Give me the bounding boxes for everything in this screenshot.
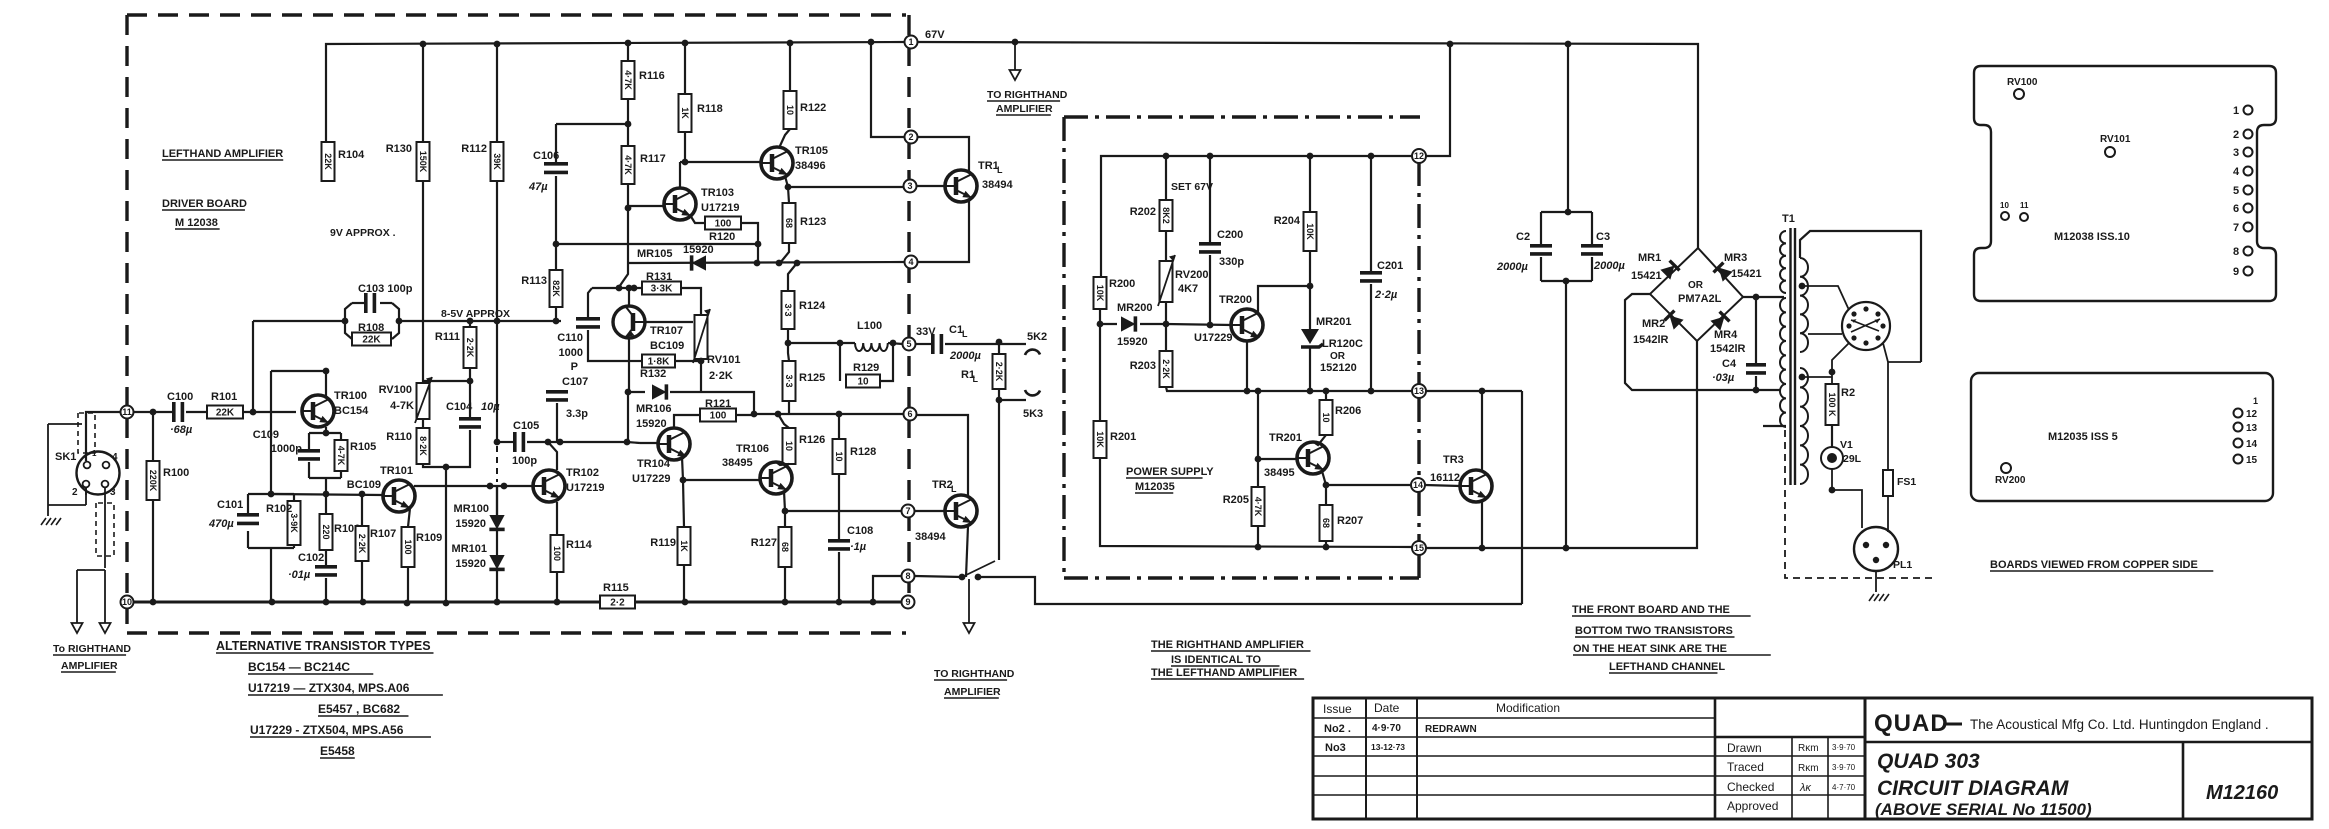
wire: TR106 emitter to node 7 wire [784,491,785,511]
wire: TR100 emitter node to TR101 base [271,494,382,495]
wire: TR200 emitter to R204 junction [1258,286,1310,313]
wire: TR100 collector tap to feedback block [271,370,326,372]
svg-text:15920: 15920 [636,418,667,430]
resistor R131 3-3K [619,263,628,287]
svg-text:2·2µ: 2·2µ [1374,289,1398,301]
wire: TR200 collector to node 13 rail [1246,340,1248,391]
wire: R118 to TR105 base [684,132,686,162]
title block columns and rows [1313,717,1715,719]
resistor R118 1K [684,43,686,94]
svg-text:TO RIGHTHAND: TO RIGHTHAND [934,668,1015,680]
svg-text:4: 4 [908,257,913,267]
wire: R131 tap to TR107 collector [628,288,630,307]
svg-text:1·8K: 1·8K [648,357,670,368]
svg-text:2·2K: 2·2K [465,338,475,358]
node 14 [1411,478,1425,492]
svg-text:10µ: 10µ [481,401,500,413]
svg-text:15: 15 [1414,543,1424,553]
svg-text:2000µ: 2000µ [1496,261,1528,273]
drawing number M12160 box [2182,742,2185,819]
svg-text:39K: 39K [492,153,502,170]
dashed link R112 column to clamp diodes [496,446,498,482]
svg-text:MR105: MR105 [637,248,672,260]
svg-text:38494: 38494 [915,531,946,543]
svg-text:2·2K: 2·2K [994,362,1004,382]
node 11 (input) [121,406,134,419]
wire: V1 to PL1 [1832,469,1862,528]
svg-text:9: 9 [2233,266,2239,278]
svg-text:RV200: RV200 [1995,475,2026,486]
transistor TR101 BC109 [383,480,415,512]
node 3 [904,180,917,193]
svg-text:9V APPROX .: 9V APPROX . [330,227,396,239]
svg-text:BC109: BC109 [347,479,381,491]
svg-text:R122: R122 [800,102,826,114]
switch contact at output [962,561,995,577]
svg-text:THE FRONT BOARD AND THE: THE FRONT BOARD AND THE [1572,604,1730,616]
board hole RV100 [2014,89,2024,99]
svg-text:QUAD 303: QUAD 303 [1877,750,1980,773]
svg-text:AMPLIFIER: AMPLIFIER [61,660,118,672]
resistor R113 82K [555,244,557,270]
resistor R101 22K [186,411,207,413]
node 10 (input ground) [121,596,134,609]
node 1 (67V) [905,36,918,49]
svg-text:BC109: BC109 [650,340,684,352]
svg-text:ON THE HEAT SINK ARE TH: ON THE HEAT SINK ARE THE [1573,643,1727,655]
svg-text:λκ: λκ [1799,782,1811,794]
svg-text:To RIGHTHAND: To RIGHTHAND [53,643,131,655]
resistor R115 2-2 in ground rail [600,596,635,609]
svg-text:3-9K: 3-9K [289,513,299,533]
svg-text:10: 10 [857,377,869,388]
svg-text:C3: C3 [1596,231,1610,243]
svg-text:M 12038: M 12038 [175,217,218,229]
svg-text:U17219 — ZTX304, MPS.A06: U17219 — ZTX304, MPS.A06 [248,681,410,695]
capacitor C108 -1u [838,474,840,539]
diode MR105 15920 [692,255,706,270]
capacitor C106 47u [555,124,557,162]
transistor TR107 BC109 (mirrored) [613,306,645,338]
svg-text:10: 10 [2000,201,2009,210]
svg-text:C106: C106 [533,150,559,162]
svg-text:Modification: Modification [1496,701,1560,715]
svg-text:E5457 , BC682: E5457 , BC682 [318,702,400,716]
svg-text:R107: R107 [370,528,396,540]
svg-text:C102: C102 [298,552,324,564]
svg-text:E5458: E5458 [320,744,355,758]
svg-text:Approved: Approved [1727,799,1778,813]
svg-text:R116: R116 [639,70,665,82]
wire: TR105 emitter to node 3 / R123 [785,176,788,187]
wire: TR3 emitter to node 15 rail [1481,501,1483,548]
svg-text:11: 11 [122,407,132,417]
svg-text:100 K: 100 K [1827,392,1837,417]
svg-text:L: L [962,329,968,339]
svg-text:L100: L100 [857,320,882,332]
node 15 [1412,541,1426,555]
svg-text:LR120C: LR120C [1322,338,1363,350]
diode MR106 15920 [628,391,645,393]
svg-text:·68µ: ·68µ [170,424,193,436]
svg-text:R114: R114 [566,539,593,551]
wire: bridge left node to transformer secondary bottom [1625,294,1781,390]
svg-text:16112: 16112 [1430,472,1460,484]
capacitor C4 -03u [1755,297,1757,363]
svg-text:(ABOVE SERIAL No 11500): (ABOVE SERIAL No 11500) [1875,800,2092,819]
resistor R205 4-7K [1257,459,1259,487]
svg-text:LEFTHAND AMPLIFIER: LEFTHAND AMPLIFIER [162,148,283,160]
resistor R119 1K [683,480,684,527]
svg-text:5K2: 5K2 [1027,331,1047,343]
wire: R203 to node 13 rail [1166,387,1412,391]
wire: R1L column down to output switch [998,400,1000,560]
svg-text:13: 13 [2246,423,2258,434]
diode MR2 1542lR [1665,311,1684,330]
svg-text:3: 3 [907,181,912,191]
wire: node 13 to TR3 collector and return corner [1426,390,1522,392]
svg-text:OR: OR [1330,351,1346,362]
wire: TR1L emitter to node 4 [917,201,969,262]
wire: 8-5V node wire to R113/C110 [399,320,561,322]
svg-text:2: 2 [2233,129,2239,141]
preset RV200 4K7 [1165,231,1167,261]
preset RV101 2-2K [695,315,708,359]
svg-text:R104: R104 [338,149,365,161]
wire: output to power supply return [978,577,1522,604]
preset RV100 4-7K [423,380,470,382]
diode MR4 1542lR [1710,312,1729,331]
node 7 [902,505,915,518]
svg-text:R117: R117 [640,153,666,165]
inductor L100 [855,343,888,351]
svg-text:3·3: 3·3 [783,303,793,316]
svg-text:R202: R202 [1130,206,1156,218]
svg-text:L: L [997,165,1003,175]
wire: bridge right node to transformer secondary top [1743,296,1784,298]
svg-text:R110: R110 [386,431,412,443]
resistor R120 100 [690,215,705,223]
svg-text:15421: 15421 [1731,268,1762,280]
capacitor C3 2000u [1591,212,1593,244]
wire: R112 column (67V to bias node to TR102 base node) [496,44,498,142]
resistor R123 68 [788,187,789,203]
svg-text:38496: 38496 [795,160,826,172]
PCB board outline M12035 ISS 5 [1971,373,2273,501]
svg-text:RV101: RV101 [2100,134,2131,145]
wire: node 6 rail [754,413,903,415]
resistor R100 220K [152,412,154,461]
svg-text:MR3: MR3 [1724,252,1747,264]
svg-text:5: 5 [2233,185,2239,197]
svg-text:R102: R102 [266,503,292,515]
svg-text:U17229 - ZTX504, MPS.A56: U17229 - ZTX504, MPS.A56 [250,723,404,737]
wire: selector to R2 and V1 [1832,343,1849,384]
svg-text:15920: 15920 [455,518,486,530]
svg-text:4·7K: 4·7K [1253,497,1263,517]
svg-text:15: 15 [2246,455,2258,466]
lefthand amplifier board dashed border [127,13,906,16]
svg-text:MR106: MR106 [636,403,671,415]
mains section dashed box [1785,430,1932,578]
wire: node 7 to TR2L base [914,510,945,512]
svg-text:3·9·70: 3·9·70 [1832,743,1856,752]
svg-text:13: 13 [1414,386,1424,396]
svg-text:10: 10 [784,441,794,451]
resistor R2 100K [1826,384,1839,425]
resistor R132 1-8K [628,337,630,361]
resistor R129 10 damping [839,343,841,381]
wire: primary tap to selector [1802,286,1849,310]
svg-text:Traced: Traced [1727,760,1764,774]
svg-text:6: 6 [2233,203,2239,215]
capacitor C100 with label [133,411,172,413]
svg-text:68: 68 [784,218,794,228]
svg-text:Checked: Checked [1727,780,1774,794]
svg-text:R125: R125 [799,372,825,384]
svg-text:9: 9 [905,597,910,607]
svg-text:C4: C4 [1722,358,1737,370]
board hole RV200 [2001,463,2011,473]
wire: SK1 pin 2 to input ground [85,488,87,495]
svg-text:2000µ: 2000µ [1593,260,1625,272]
transistor TR201 38495 [1297,442,1329,474]
svg-text:4·7·70: 4·7·70 [1832,783,1856,792]
capacitor C2 2000u [1567,44,1569,212]
svg-text:2·2K: 2·2K [357,534,367,554]
resistor R1L 2-2K [998,342,1000,354]
svg-text:2·2K: 2·2K [709,370,733,382]
svg-text:1542lR: 1542lR [1710,343,1746,355]
svg-text:R101: R101 [211,391,237,403]
resistor R109 100 [408,508,410,527]
wire: TR104 emitter to R119 and TR106 base [682,457,683,480]
wire: R201 to node 15 rail [1100,458,1412,547]
svg-text:L: L [973,374,979,384]
svg-text:No3: No3 [1325,742,1346,754]
svg-text:470µ: 470µ [208,518,234,530]
resistor R112 39K [491,142,504,181]
svg-text:15920: 15920 [1117,336,1148,348]
svg-text:THE RIGHTHAND AMPLIFIER: THE RIGHTHAND AMPLIFIER [1151,639,1304,651]
svg-text:LEFTHAND CHANNEL: LEFTHAND CHANNEL [1609,661,1725,673]
svg-text:DRIVER BOARD: DRIVER BOARD [162,198,247,210]
wire: TR201 emitter to node 14 [1322,471,1326,485]
svg-text:8K2: 8K2 [1161,207,1171,224]
resistor R202 8K2 [1165,156,1167,200]
wire: 0V ground rail (node 10 to node 9) [133,601,600,604]
svg-text:T1: T1 [1782,213,1795,225]
resistor R111 2-2K [469,321,471,327]
svg-text:C109: C109 [253,429,279,441]
resistor R203 2-2K [1165,324,1167,351]
svg-text:3.3p: 3.3p [566,408,588,420]
svg-text:V1: V1 [1840,439,1853,451]
svg-text:U17219: U17219 [566,482,605,494]
svg-text:8-5V APPROX: 8-5V APPROX [441,308,510,320]
wire: C106 bottom to driver bootstrap [556,243,758,245]
transistor TR103 U17219 [664,188,696,220]
svg-text:C201: C201 [1377,260,1403,272]
diode MR100 15920 [496,486,498,517]
svg-text:POWER SUPPLY: POWER SUPPLY [1126,466,1214,478]
output socket SK3 [999,399,1026,401]
capacitor C200 330p [1209,156,1211,242]
wire: node 4 rail [628,262,904,263]
svg-text:38495: 38495 [722,457,753,469]
svg-text:C200: C200 [1217,229,1243,241]
svg-text:PM7A2L: PM7A2L [1678,293,1722,305]
transistor TR1L 38494 output [945,170,977,202]
wire: feeds to righthand amplifier with arrows [77,569,105,571]
svg-text:TR100: TR100 [334,390,367,402]
resistor R130 150K [417,142,430,181]
svg-text:TR200: TR200 [1219,294,1252,306]
svg-text:R115: R115 [603,582,629,594]
svg-text:68: 68 [1321,518,1331,528]
svg-text:FS1: FS1 [1897,476,1916,488]
svg-text:R111: R111 [435,331,460,343]
wire: output return to righthand amplifier arrow [915,576,962,577]
transformer secondary winding upper [1780,231,1786,293]
board hole RV101 [2105,147,2115,157]
wire: TR105 collector to R122 [779,129,790,148]
resistor R106 220 [325,494,327,514]
svg-text:6: 6 [907,409,912,419]
wire: TR2L emitter to output junction [966,526,968,577]
svg-text:R109: R109 [416,532,442,544]
wire: SK1 pin 3 down to righthand amp feed [104,488,106,568]
wire: primary tap to lamp circuit [1802,376,1832,378]
svg-text:4·7K: 4·7K [623,155,633,175]
output socket SK2 [945,343,1026,345]
resistor R117 4-7K [627,99,629,146]
capacitor C1L 2000u [915,343,931,345]
svg-text:8·2K: 8·2K [418,436,428,456]
svg-text:R124: R124 [799,300,826,312]
wire: node 13 rail to TR201 base [1258,391,1297,459]
node 4 [905,256,918,269]
svg-text:No2 .: No2 . [1324,723,1351,735]
wire: R130 column down to RV100 [422,44,424,142]
svg-text:C1: C1 [949,324,963,336]
resistor R200 10K [1094,277,1107,309]
node 5 (33V) [903,338,916,351]
svg-text:IS IDENTICAL TO: IS IDENTICAL TO [1171,654,1261,666]
wire: +67V top rail [326,42,905,142]
svg-text:RV101: RV101 [707,354,740,366]
capacitor C107 3-3p [546,390,568,394]
wire: primary top to selector feed [1800,231,1921,362]
diode MR200 15920 [1100,323,1117,325]
svg-text:SK1: SK1 [55,451,76,463]
svg-text:29L: 29L [1843,453,1862,465]
svg-text:C104: C104 [446,401,473,413]
svg-text:R200: R200 [1109,278,1135,290]
wire: TR107 base to RV101 wiper [644,321,693,323]
svg-text:1000p: 1000p [271,443,302,455]
wire: node 8 jog to ground rail [873,576,901,602]
svg-text:MR201: MR201 [1316,316,1351,328]
svg-text:R113: R113 [521,275,547,287]
svg-text:C105: C105 [513,420,539,432]
wire: selector links [1808,333,1842,335]
label TO RIGHTHAND AMPLIFIER (67V rail) [1014,42,1016,70]
svg-text:C107: C107 [562,376,588,388]
node 6 [904,408,917,421]
svg-text:TR101: TR101 [380,465,413,477]
svg-text:22K: 22K [323,153,333,170]
svg-text:M12035: M12035 [1135,481,1175,493]
wire: R123 bottom to node 4 wire [780,243,789,263]
svg-text:C2: C2 [1516,231,1530,243]
svg-text:5K3: 5K3 [1023,408,1043,420]
svg-text:12: 12 [1414,151,1424,161]
svg-text:4: 4 [2233,166,2240,178]
svg-text:R108: R108 [358,322,384,334]
node 8 [902,570,915,583]
power supply dash-dot border [1064,115,1420,118]
svg-text:7: 7 [2233,222,2239,234]
wire: R111 to C104 junction [469,368,471,417]
svg-text:152120: 152120 [1320,362,1357,374]
svg-text:TR104: TR104 [637,458,671,470]
wire: node 2 tap to 67V rail [871,42,904,137]
svg-text:67V: 67V [925,29,945,41]
svg-text:82K: 82K [551,280,561,297]
svg-text:M12160: M12160 [2206,782,2278,804]
resistor R201 10K [1099,324,1101,421]
svg-text:R120: R120 [709,231,735,243]
svg-text:TO RIGHTHAND: TO RIGHTHAND [987,89,1068,101]
svg-text:2: 2 [908,132,913,142]
capacitor C103 100p / resistor R108 22K feedback block [253,320,345,322]
node 13 [1412,384,1426,398]
transformer T1 core [1789,228,1791,485]
PCB board outline M12038 ISS-10 [1974,66,2276,301]
svg-text:Date: Date [1374,701,1400,715]
svg-text:R123: R123 [800,216,826,228]
svg-text:4K7: 4K7 [1178,283,1198,295]
svg-text:BC154: BC154 [334,405,369,417]
resistor R127 68 [784,511,786,527]
svg-text:MR1: MR1 [1638,252,1661,264]
svg-text:C101: C101 [217,499,243,511]
svg-text:L: L [951,484,957,494]
bridge rectifier diamond PM7A2L [1650,248,1743,341]
svg-text:M12038 ISS.10: M12038 ISS.10 [2054,231,2130,243]
svg-text:R126: R126 [799,434,825,446]
svg-text:4-7K: 4-7K [390,400,414,412]
svg-text:4-7K: 4-7K [336,446,346,466]
svg-text:12: 12 [2246,409,2258,420]
screen dashed box on righthand feed [96,503,114,556]
svg-text:BC154 — BC214C: BC154 — BC214C [248,660,350,674]
resistor R206 10 [1325,391,1327,400]
svg-text:U17229: U17229 [1194,332,1233,344]
resistor R125 3-3 [788,343,789,361]
svg-text:RV100: RV100 [2007,77,2038,88]
wire: R121 left to TR104 collector [674,415,700,428]
svg-text:U17229: U17229 [632,473,671,485]
svg-text:PL1: PL1 [1893,559,1912,571]
transformer secondary tail stub [1763,425,1786,427]
wire: R206 to TR201 collector [1315,435,1326,445]
svg-text:1: 1 [2253,396,2258,406]
wire: PSU internal top rail from node 12 [1101,156,1412,277]
svg-text:220K: 220K [148,470,158,492]
zener MR201 LR120C or 152120 [1309,286,1311,329]
